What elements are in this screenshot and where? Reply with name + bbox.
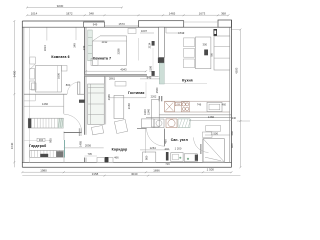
- svg-text:1482: 1482: [208, 115, 215, 119]
- svg-text:2861: 2861: [109, 77, 116, 81]
- svg-text:1460: 1460: [42, 102, 49, 106]
- svg-text:2056: 2056: [85, 144, 92, 148]
- svg-text:1713: 1713: [178, 31, 185, 35]
- svg-text:1673: 1673: [199, 11, 206, 15]
- svg-text:1465: 1465: [169, 11, 176, 15]
- svg-text:368: 368: [221, 11, 226, 15]
- svg-text:1640: 1640: [10, 142, 14, 149]
- svg-text:Коридор: Коридор: [112, 148, 128, 152]
- svg-text:960: 960: [230, 143, 234, 148]
- svg-text:4043: 4043: [120, 68, 127, 72]
- svg-text:Сан. узел: Сан. узел: [171, 138, 188, 142]
- svg-text:1980: 1980: [40, 168, 47, 172]
- svg-text:1014: 1014: [31, 11, 38, 15]
- svg-text:Комната 6: Комната 6: [51, 55, 69, 59]
- svg-text:9400: 9400: [12, 70, 16, 77]
- svg-text:Гардероб: Гардероб: [29, 144, 46, 148]
- svg-text:1 500: 1 500: [207, 168, 215, 172]
- svg-text:4285: 4285: [234, 67, 238, 74]
- svg-text:845: 845: [147, 75, 152, 79]
- svg-text:348: 348: [89, 11, 94, 15]
- svg-text:Гостиная: Гостиная: [128, 91, 145, 95]
- svg-text:1872: 1872: [66, 11, 73, 15]
- svg-text:3158: 3158: [92, 172, 99, 176]
- svg-text:1573: 1573: [118, 22, 125, 26]
- svg-text:3040: 3040: [131, 172, 138, 176]
- svg-text:9230: 9230: [57, 4, 64, 8]
- svg-text:1264: 1264: [150, 146, 157, 150]
- svg-text:360: 360: [230, 131, 234, 136]
- svg-text:1007: 1007: [141, 29, 148, 33]
- svg-text:Кухня: Кухня: [182, 79, 193, 83]
- svg-text:1696: 1696: [153, 168, 160, 172]
